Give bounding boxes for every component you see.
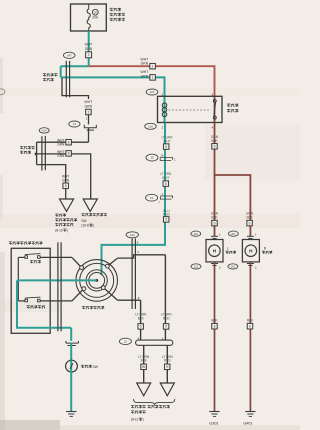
svg-text:BLK: BLK: [246, 216, 253, 220]
svg-text:8: 8: [65, 184, 67, 188]
right horn R box: [242, 240, 259, 262]
short coupler C414 bars: [42, 136, 45, 171]
svg-text:122: 122: [130, 233, 135, 237]
relay actuation dashed line: [169, 109, 211, 111]
svg-text:147: 147: [67, 53, 72, 57]
svg-text:GRN: GRN: [85, 105, 93, 109]
inline connector C21: [160, 196, 173, 199]
cruise connector C21 bar: [136, 340, 173, 345]
column connector left bars: [58, 242, 61, 331]
off-page arrow brake light switch: [83, 199, 97, 211]
label BLK + code (right): [247, 318, 254, 329]
label L horn: [226, 246, 236, 253]
cable reel center: [95, 279, 98, 282]
svg-text:L: L: [227, 246, 229, 250]
svg-text:116: 116: [148, 124, 153, 128]
svg-text:GRN: GRN: [141, 74, 149, 78]
label GRN BLK + code (upper): [211, 135, 219, 149]
svg-text:20A: 20A: [92, 16, 99, 20]
wire BLK left horn to ground: [214, 262, 216, 411]
off-page arrow cruise right: [160, 383, 174, 396]
connector label oval 202: [191, 231, 201, 236]
set switch wiring: [18, 256, 72, 258]
fuse number circle 16: [92, 9, 98, 15]
reel lead top-left: [72, 258, 81, 267]
wire set signal through C122: [117, 255, 165, 258]
wire resume signal through C122: [117, 299, 140, 301]
svg-text:GRN: GRN: [57, 142, 65, 146]
label LT GRN WHT + code (1): [162, 136, 174, 150]
svg-text:WHT: WHT: [163, 139, 170, 143]
brace cruise control unit: [133, 399, 175, 405]
label set/resume SW (katakana): [9, 242, 42, 245]
reel pad bottom-right: [101, 286, 105, 290]
red wire label WHT GRN + code: [141, 57, 156, 69]
wire WHT GRN label + code on x88 drop: [84, 100, 92, 115]
svg-text:21: 21: [124, 340, 128, 344]
relay switch contact: [213, 99, 216, 119]
horn switch circle: [66, 360, 78, 372]
horn wire through reel center (teal): [17, 279, 97, 281]
pin 1 of connector C14: [85, 117, 87, 121]
svg-text:5: 5: [140, 325, 142, 329]
svg-text:RED: RED: [163, 316, 170, 320]
svg-text:BLK: BLK: [247, 318, 254, 322]
set switch contacts: [25, 254, 41, 259]
ground (horn switch): [66, 412, 76, 417]
svg-text:6: 6: [249, 221, 251, 225]
reel lead top-right: [109, 258, 118, 265]
svg-text:21: 21: [150, 196, 154, 200]
relay pin 4: [211, 125, 213, 129]
svg-text:14: 14: [73, 122, 77, 126]
svg-text:BLK: BLK: [211, 318, 218, 322]
short coupler C147 bars: [66, 61, 69, 98]
fuse rating 20A: [92, 16, 99, 20]
wire WHT GRN teal main feed to relay: [61, 77, 165, 96]
short coupler C147 jumper loop: [60, 66, 62, 77]
label SET (katakana): [30, 260, 41, 263]
resume switch contacts: [25, 297, 41, 302]
connector label oval 21 (bar): [119, 338, 131, 344]
svg-text:6: 6: [249, 324, 251, 328]
short coupler C414 jumper loop: [36, 142, 38, 164]
svg-text:1: 1: [152, 76, 154, 80]
svg-text:BLK: BLK: [138, 316, 145, 320]
left horn symbol H: [209, 245, 221, 257]
label BLU RED + code: [163, 209, 170, 222]
label BLK + code (left): [211, 318, 218, 329]
svg-text:SW: SW: [81, 219, 86, 223]
left horn top terminal: [211, 236, 218, 238]
horn switch feed (teal): [70, 328, 72, 341]
horn switch wire through: [70, 360, 72, 372]
column connector C122 bars: [132, 239, 135, 310]
wire segment to coupler net: [88, 128, 90, 143]
label LT GRN BLK + code (below): [138, 355, 150, 370]
pin 1 (C15): [174, 158, 176, 162]
pin 2 right horn: [255, 266, 257, 270]
wire teal upper to junction: [61, 65, 89, 67]
svg-text:414: 414: [42, 129, 47, 133]
svg-text:RED: RED: [164, 359, 171, 363]
relay coil: [162, 103, 167, 117]
reel lead bottom-left: [72, 290, 83, 301]
coupler2 wire 3 to interlock drop: [37, 165, 66, 199]
svg-text:5: 5: [165, 182, 167, 186]
svg-text:G301: G301: [209, 421, 218, 425]
svg-text:BLK: BLK: [211, 139, 218, 143]
connector label oval 21: [146, 194, 158, 201]
pin 8 at column connector: [137, 240, 139, 244]
pin 5 (C122): [138, 296, 140, 300]
relay pin 1: [161, 92, 163, 96]
label horn interlock solenoid (katakana): [55, 214, 77, 232]
reel lead bottom-right: [105, 289, 118, 301]
pin 1 left horn: [219, 233, 221, 237]
svg-text:): ): [93, 224, 94, 228]
wire WHT GRN red feed to relay switch: [89, 66, 215, 96]
svg-text:3: 3: [88, 53, 90, 57]
wire WHT/GRN from fuse (teal): [88, 31, 90, 66]
teal wire label WHT GRN + code: [141, 70, 156, 80]
wire BLK right horn to ground: [249, 262, 251, 411]
right horn bottom terminal: [247, 264, 254, 266]
svg-text:15: 15: [150, 156, 154, 160]
wire2 label WHT GRN + code: [57, 150, 71, 158]
svg-text:202: 202: [194, 232, 199, 236]
wire to cruise unit right: [166, 345, 168, 383]
label main fuse box (katakana): [110, 8, 125, 21]
relay pin 2: [161, 125, 163, 129]
connector label oval 112: [191, 264, 201, 269]
ground G401 symbol: [245, 412, 255, 417]
svg-text:6: 6: [214, 324, 216, 328]
connector label oval 14: [69, 121, 80, 127]
wire LT GRN/BLK down: [140, 300, 142, 340]
label GRN BLK + code (left horn): [211, 212, 219, 226]
connector label oval 201: [229, 231, 239, 236]
svg-text:201: 201: [231, 232, 236, 236]
svg-text:(10-8: (10-8: [81, 224, 89, 228]
pin 1 right horn: [255, 233, 257, 237]
svg-text:8: 8: [68, 140, 70, 144]
horn relay box: [158, 96, 223, 122]
svg-text:BLK: BLK: [211, 216, 218, 220]
wire to cruise unit left: [143, 345, 145, 383]
svg-text:): ): [143, 418, 144, 422]
svg-text:6: 6: [214, 145, 216, 149]
reel pad top-left: [80, 266, 84, 270]
svg-text:1: 1: [152, 64, 154, 68]
reel pad top-right: [106, 264, 110, 268]
svg-text:3: 3: [87, 110, 89, 114]
svg-text:GRN: GRN: [141, 62, 149, 66]
connector label oval 414: [39, 128, 49, 133]
label LT GRN BLK + code (above): [135, 313, 147, 330]
label G401: [243, 421, 252, 425]
label LT GRN RED + code (above): [161, 313, 173, 330]
svg-text:(8-10: (8-10: [55, 228, 63, 232]
inline connector C15: [160, 157, 173, 160]
label G301: [209, 421, 218, 425]
reel pad bottom-left: [82, 287, 86, 291]
horn switch connector: [66, 341, 79, 346]
pin 4 (C122): [137, 250, 139, 254]
label GRN BLK + code (right horn): [246, 212, 254, 226]
svg-text:H: H: [213, 248, 217, 253]
wire1 label WHT GRN + code: [57, 138, 71, 146]
label short coupler 2 (katakana): [20, 146, 34, 153]
svg-text:161: 161: [231, 265, 236, 269]
cable reel circles: [76, 260, 118, 302]
branch to right horn: [214, 175, 251, 236]
node black tap to brake/interlock net: [62, 78, 89, 99]
svg-text:5: 5: [165, 145, 167, 149]
fuse F16 symbol: [87, 5, 90, 32]
label LT GRN WHT + code (2): [160, 172, 172, 186]
relay pin 3: [211, 92, 213, 96]
wire horn switch to ground (teal): [70, 372, 72, 411]
connector label oval 116: [145, 123, 157, 129]
svg-text:GRN: GRN: [62, 179, 70, 183]
svg-text:WHT: WHT: [162, 176, 169, 180]
svg-text:GRN: GRN: [57, 154, 65, 158]
wire into horn switch: [70, 343, 72, 360]
label brake light SW (katakana): [81, 214, 106, 228]
label horn SW (katakana): [81, 365, 99, 369]
pin 1 (C21): [161, 192, 163, 196]
main fuse box outline: [71, 4, 107, 31]
wire GRN/BLK relay to horns: [214, 123, 216, 237]
svg-text:SW: SW: [93, 365, 99, 369]
label RESUME (katakana): [27, 306, 45, 309]
connector label oval 121: [146, 89, 158, 95]
coupler2 wire 1: [37, 141, 89, 143]
wire color label WHT GRN + code 3: [85, 43, 93, 58]
svg-text:): ): [67, 228, 68, 232]
connector label oval 122: [126, 232, 138, 238]
wire LT GRN/RED down: [164, 255, 166, 340]
pin 2 left horn: [219, 266, 221, 270]
label cruise control unit (katakana): [131, 405, 170, 421]
off-page arrow cruise left: [137, 383, 151, 396]
svg-text:BLK: BLK: [141, 359, 148, 363]
interlock wire label WHT GRN + code: [62, 175, 70, 189]
horn relay switch wire through: [214, 96, 216, 122]
horn wire down inside box (teal): [17, 280, 71, 327]
left horn L box: [206, 240, 223, 262]
right horn symbol H: [245, 245, 257, 257]
svg-text:(8-12: (8-12: [131, 418, 139, 422]
left horn bottom terminal: [211, 264, 218, 266]
svg-text:GRN: GRN: [85, 47, 93, 51]
label short coupler (katakana): [43, 74, 57, 81]
set/resume switch box: [11, 248, 50, 333]
junction dot: [35, 153, 38, 156]
pin 1 (C21 bar): [162, 337, 164, 341]
svg-text:5: 5: [165, 218, 167, 222]
connector label oval 161: [228, 264, 238, 269]
label LT GRN RED + code (below): [162, 355, 174, 370]
svg-text:16: 16: [94, 11, 98, 15]
label cable reel (katakana): [82, 306, 104, 309]
pin 7: [158, 201, 160, 205]
connector label oval 147: [63, 52, 75, 58]
horn relay coil wire through: [164, 96, 166, 122]
coupler2 wire 2 to brake sw drop: [36, 154, 91, 199]
svg-text:6: 6: [214, 221, 216, 225]
connector C14 bracket: [84, 125, 96, 130]
label horn relay (katakana): [227, 104, 238, 112]
connector label oval 15: [146, 154, 158, 161]
horn switch blade: [70, 363, 73, 369]
ground G301 symbol: [209, 412, 219, 417]
off-page arrow horn interlock solenoid: [60, 199, 74, 211]
svg-text:8: 8: [68, 152, 70, 156]
svg-text:121: 121: [149, 90, 154, 94]
svg-text:G401: G401: [243, 421, 252, 425]
svg-text:14: 14: [160, 153, 164, 157]
wire LT GRN/WHT relay pin2 down: [102, 123, 166, 276]
partial connector oval at page edge: [0, 89, 5, 95]
svg-text:112: 112: [194, 265, 199, 269]
switch common bus: [17, 257, 19, 301]
pin 4 (C21 bar): [137, 337, 139, 341]
svg-text:RED: RED: [163, 213, 170, 217]
resume switch wiring: [18, 300, 72, 302]
right horn top terminal: [247, 236, 254, 238]
label R horn: [262, 246, 272, 253]
pin 14: [160, 153, 164, 157]
wire drop segment: [88, 115, 90, 125]
